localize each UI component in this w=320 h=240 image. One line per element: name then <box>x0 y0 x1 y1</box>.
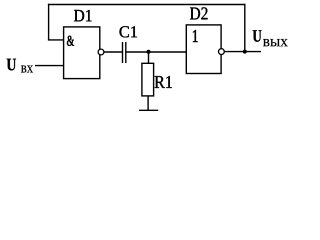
wire: node A down to R1 <box>148 52 150 63</box>
wire: input from Uвх to D1 bottom input <box>35 65 64 67</box>
wire: top feedback horizontal from output node to D1 <box>48 4 246 6</box>
logic gate D1 (NAND element body) <box>64 27 100 79</box>
capacitor C1 right plate <box>125 42 127 63</box>
ground <box>139 109 158 111</box>
resistor R1 <box>142 63 154 96</box>
wire: feedback vertical rise at output node <box>244 4 246 52</box>
value label '&' of D1 <box>67 36 74 46</box>
wire: D1 output to C1 <box>104 51 122 53</box>
wire: R1 bottom to ground <box>147 96 149 110</box>
label D2 <box>190 7 208 19</box>
logic gate D2 (inverter element body) <box>186 25 221 74</box>
junction: node A (C1 / R1 / D2 input) <box>147 50 151 54</box>
label R1 <box>155 76 172 88</box>
wire: D2 output to Uвых node <box>224 51 261 53</box>
junction: output node (D2 output / feedback) <box>243 50 247 54</box>
wire: D1 top input stub <box>48 39 64 41</box>
label D1 <box>74 10 92 21</box>
wire: C1 to D2 input <box>126 51 186 53</box>
value label '1' of D2 <box>193 30 198 42</box>
label C1 <box>120 26 138 37</box>
node Uвых: output terminal label <box>253 30 262 42</box>
D1 output inversion bubble <box>98 49 104 55</box>
node Uвх: input terminal label <box>7 59 16 71</box>
wire: feedback vertical drop on left to D1 top input <box>48 4 50 40</box>
capacitor C1 left plate <box>122 42 124 63</box>
D2 output inversion bubble <box>219 49 225 55</box>
